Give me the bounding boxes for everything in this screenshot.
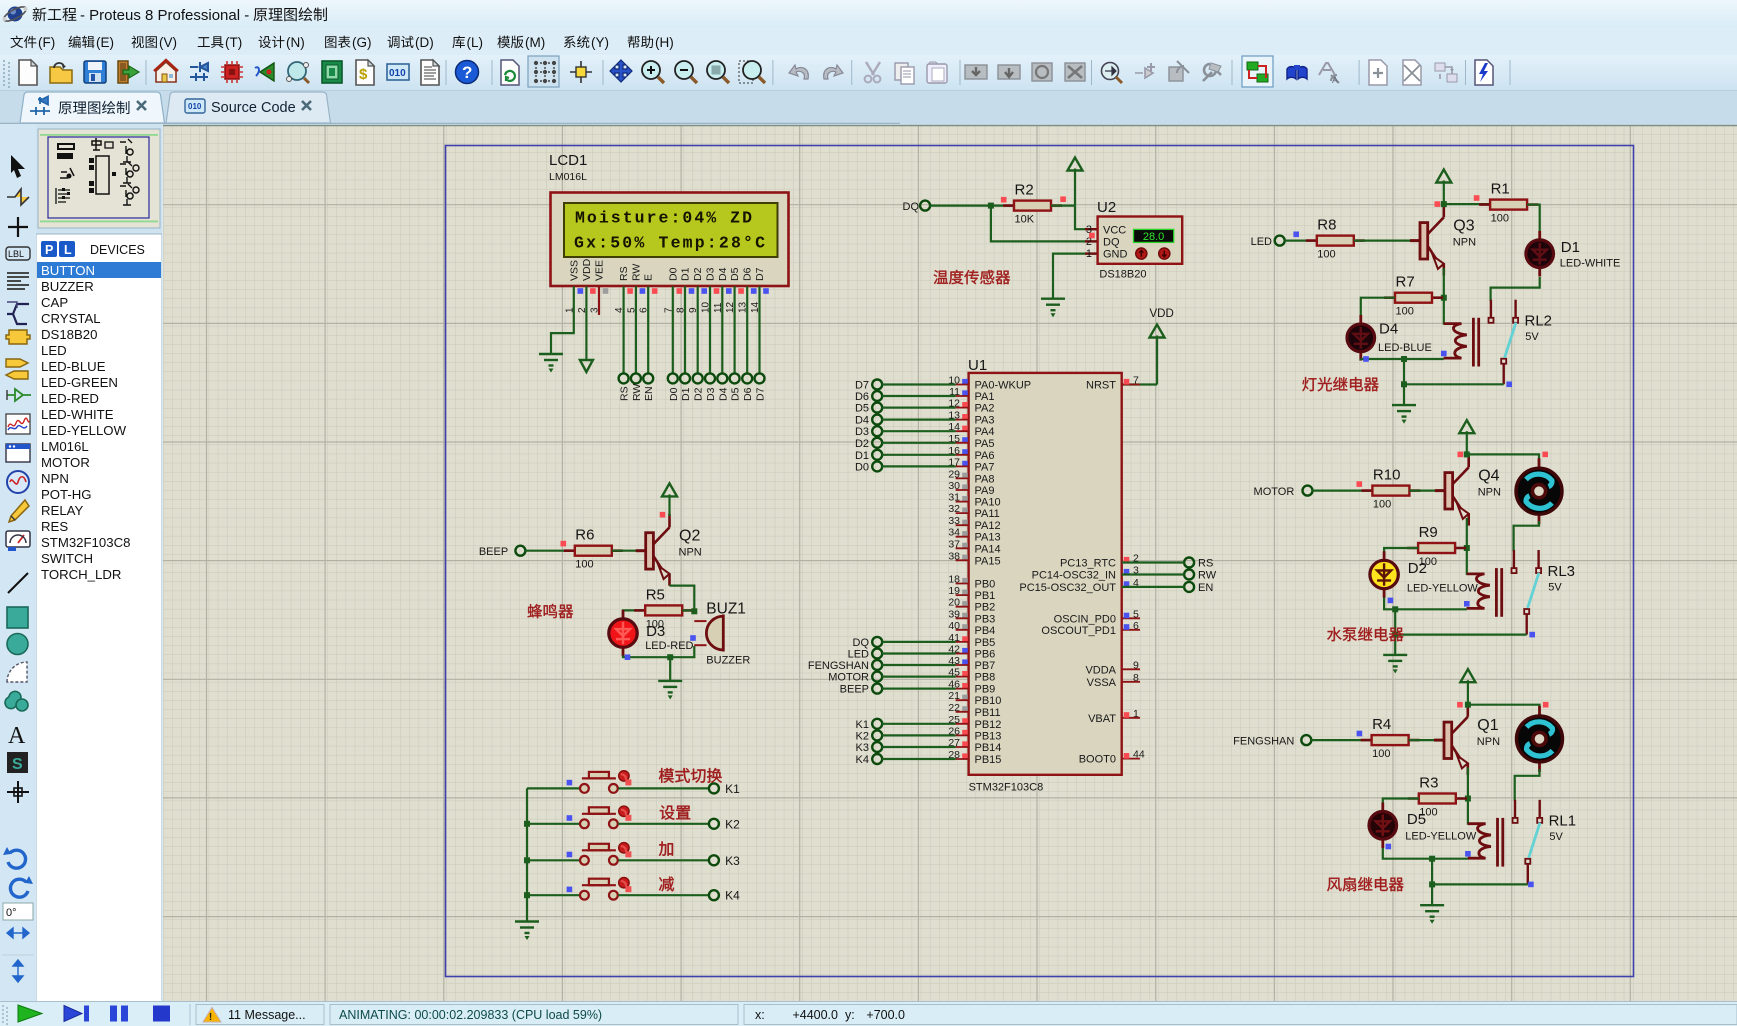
svg-text:PB0: PB0 xyxy=(975,579,996,591)
svg-text:GND: GND xyxy=(1103,249,1128,261)
wire LCD1 RS down to terminal xyxy=(622,286,624,373)
active tab 原理图绘制 xyxy=(20,92,165,123)
wire ground node down (RL1) xyxy=(1431,859,1433,905)
svg-text:PA1: PA1 xyxy=(975,391,995,403)
svg-text:PA9: PA9 xyxy=(975,485,995,497)
pin square motor top (pump) xyxy=(1542,452,1548,458)
pin square BUZ1 xyxy=(690,635,696,641)
wire button K2 to terminal xyxy=(618,823,709,825)
svg-text:PB2: PB2 xyxy=(975,602,996,614)
ground (U2 GND) xyxy=(1041,299,1065,311)
wire R1 to D1 xyxy=(1527,205,1540,241)
svg-text:?: ? xyxy=(462,63,472,82)
svg-text:NPN: NPN xyxy=(1477,736,1500,748)
label 温度传感器 (temperature sensor) xyxy=(934,270,948,284)
wire FENGSHAN terminal to R4 xyxy=(1311,739,1372,741)
svg-text:LED-YELLOW: LED-YELLOW xyxy=(1407,583,1479,595)
svg-text:VSS: VSS xyxy=(568,260,580,281)
terminal D5 (below LCD) xyxy=(730,373,740,383)
junction ground rail (RL2) xyxy=(1401,381,1407,387)
wire Q3 emitter to RL2 coil xyxy=(1443,268,1445,325)
svg-text:DQ: DQ xyxy=(903,201,920,213)
svg-text:(G): (G) xyxy=(352,35,372,50)
svg-text:!: ! xyxy=(209,1012,212,1023)
svg-text:(V): (V) xyxy=(159,35,177,50)
svg-text:PB15: PB15 xyxy=(975,754,1002,766)
terminal K4 (buttons) xyxy=(709,890,719,900)
svg-text:MOTOR: MOTOR xyxy=(1254,486,1295,498)
pin square R8 left xyxy=(1293,232,1299,238)
svg-text:Q3: Q3 xyxy=(1453,218,1474,235)
svg-text:(N): (N) xyxy=(286,35,305,50)
svg-text:10K: 10K xyxy=(1015,214,1035,226)
svg-text:PB5: PB5 xyxy=(975,637,996,649)
wire LCD1 D2 down to terminal xyxy=(697,286,699,373)
wire LCD1 D3 down to terminal xyxy=(709,286,711,373)
svg-text:K2: K2 xyxy=(725,817,740,831)
terminal K3 (U1 side) xyxy=(872,742,882,752)
window title text xyxy=(33,7,47,21)
pin square RL1 pole xyxy=(1528,882,1534,888)
svg-text:POT-HG: POT-HG xyxy=(41,487,92,502)
terminal D1 (U1 side) xyxy=(872,450,882,460)
svg-text:LED: LED xyxy=(41,343,67,358)
wire RL2 pole to ground rail xyxy=(1404,383,1504,385)
terminal K1 (U1 side) xyxy=(872,719,882,729)
svg-text:100: 100 xyxy=(1317,249,1335,261)
svg-text:K4: K4 xyxy=(856,754,869,766)
pin square left of junction (Q3) xyxy=(1435,201,1441,207)
wire terminal D4 to U1 xyxy=(882,419,956,421)
svg-text:D3: D3 xyxy=(855,426,869,438)
svg-text:STM32F103C8: STM32F103C8 xyxy=(41,535,130,550)
pin square R4 left xyxy=(1357,731,1363,737)
power terminal (Q4 collector rail) xyxy=(1466,431,1468,454)
svg-text:x:: x: xyxy=(755,1008,765,1022)
pin square button K1 xyxy=(567,780,573,786)
svg-text:LED-BLUE: LED-BLUE xyxy=(1378,342,1432,354)
svg-text:D2: D2 xyxy=(1408,560,1427,577)
wire D4 bottom to RL2 coil bottom xyxy=(1361,357,1444,360)
svg-text:(H): (H) xyxy=(655,35,674,50)
svg-text:D5: D5 xyxy=(1407,811,1426,828)
svg-text:D6: D6 xyxy=(742,387,754,401)
wire terminal LED to U1 xyxy=(882,652,956,654)
U1 left pin names PA0-PA15, PB0-PB15 xyxy=(975,380,1032,767)
svg-text:+700.0: +700.0 xyxy=(866,1008,905,1022)
svg-text:LM016L: LM016L xyxy=(549,171,587,183)
terminal K2 (U1 side) xyxy=(872,730,882,740)
ground (pump relay) xyxy=(1383,655,1407,667)
svg-text:D0: D0 xyxy=(855,461,869,473)
svg-text:VDD: VDD xyxy=(1150,308,1174,320)
pin square RL1 coil xyxy=(1465,851,1471,857)
svg-text:RL2: RL2 xyxy=(1525,313,1553,330)
wire terminal MOTOR to U1 xyxy=(882,675,956,677)
wire BEEP to R6 xyxy=(525,550,575,552)
toolbar grip dots xyxy=(3,60,10,88)
svg-text:VBAT: VBAT xyxy=(1088,713,1116,725)
wire LCD1 D5 down to terminal xyxy=(733,286,735,373)
Proteus logo xyxy=(2,4,28,24)
svg-text:PA6: PA6 xyxy=(975,450,995,462)
svg-text:NPN: NPN xyxy=(1453,237,1476,249)
U1 left pin numbers and squares xyxy=(948,375,960,762)
svg-text:STM32F103C8: STM32F103C8 xyxy=(969,782,1044,794)
LCD display LCD1 LM016L xyxy=(549,152,789,286)
wire LCD1 D6 down to terminal xyxy=(746,286,748,373)
push button K1 xyxy=(580,772,618,793)
power terminal (Q1 collector rail) xyxy=(1467,680,1469,705)
svg-text:100: 100 xyxy=(1491,213,1509,225)
wire VCC rail to U2 pin3 xyxy=(1075,206,1098,230)
svg-text:RW: RW xyxy=(630,264,642,281)
terminal D6 (U1 side) xyxy=(872,391,882,401)
step button xyxy=(64,1006,82,1022)
pin square left of junction (Q4) xyxy=(1458,452,1464,458)
svg-text:TORCH_LDR: TORCH_LDR xyxy=(41,567,121,582)
wire U2 pin1 GND to ground xyxy=(1053,254,1098,299)
wire terminal D0 to U1 xyxy=(882,465,956,467)
svg-text:(E): (E) xyxy=(96,35,114,50)
svg-text:D1: D1 xyxy=(680,387,692,401)
terminal D6 (below LCD) xyxy=(742,373,752,383)
svg-text:R3: R3 xyxy=(1419,775,1438,792)
wire terminal K2 to U1 xyxy=(882,734,956,736)
terminal K4 (U1 side) xyxy=(872,754,882,764)
U1 left pin stubs xyxy=(956,385,969,760)
label 模式切换 (mode switch) xyxy=(659,768,674,783)
svg-text:BOOT0: BOOT0 xyxy=(1079,754,1116,766)
LCD1 pin numbers 1-14 (rotated) xyxy=(564,301,761,313)
svg-text:DS18B20: DS18B20 xyxy=(41,327,97,342)
wire terminal D1 to U1 xyxy=(882,454,956,456)
svg-text:R5: R5 xyxy=(646,586,665,603)
wire LED terminal to R8 xyxy=(1284,240,1317,242)
svg-text:(F): (F) xyxy=(38,35,55,50)
svg-text:VEE: VEE xyxy=(594,260,606,281)
terminal EN (below LCD) xyxy=(643,373,653,383)
svg-text:R1: R1 xyxy=(1491,181,1510,198)
svg-text:BUZZER: BUZZER xyxy=(41,279,94,294)
svg-text:D4: D4 xyxy=(1379,321,1398,338)
LED D5 LED-YELLOW (off) xyxy=(1369,803,1397,849)
junction bus row K2 xyxy=(524,821,530,827)
toolbar separators xyxy=(145,60,147,85)
wire terminal D2 to U1 xyxy=(882,442,956,444)
terminal RS (U1 right) xyxy=(1184,558,1194,568)
terminal FENGSHAN (U1 side) xyxy=(872,660,882,670)
svg-text:D5: D5 xyxy=(730,387,742,401)
pin square R2 left xyxy=(1001,197,1007,203)
svg-text:R7: R7 xyxy=(1396,274,1415,291)
svg-text:010: 010 xyxy=(188,102,202,111)
svg-text:DQ: DQ xyxy=(1103,237,1120,249)
LCD1 pin indicator squares xyxy=(578,288,584,294)
wire MOTOR terminal to R10 xyxy=(1312,490,1372,492)
svg-text:RELAY: RELAY xyxy=(41,503,83,518)
terminal LED (U1 side) xyxy=(872,649,882,659)
wire DQ terminal to R2 xyxy=(930,205,1014,207)
svg-text:PC15-OSC32_OUT: PC15-OSC32_OUT xyxy=(1019,582,1116,594)
wire terminal K3 to U1 xyxy=(882,746,956,748)
svg-text:FENGSHAN: FENGSHAN xyxy=(808,660,869,672)
svg-text:EN: EN xyxy=(1198,582,1213,594)
junction D5/coil ground node xyxy=(1429,856,1435,862)
junction ground rail (RL3) xyxy=(1392,632,1398,638)
terminal RS (below LCD) xyxy=(619,373,629,383)
label 灯光继电器 (light relay) xyxy=(1302,377,1316,391)
pin square R10 left xyxy=(1357,481,1363,487)
svg-text:PA12: PA12 xyxy=(975,520,1001,532)
pin square button K2 xyxy=(567,815,573,821)
svg-text:Q2: Q2 xyxy=(679,528,700,545)
wire R6 to Q2 base xyxy=(612,550,646,552)
svg-text:D7: D7 xyxy=(755,387,767,401)
wire U1 to terminal EN xyxy=(1122,586,1185,588)
svg-text:PA8: PA8 xyxy=(975,473,995,485)
wire to ground (buzzer) xyxy=(669,657,671,680)
wire R3 to emitter junction xyxy=(1456,797,1468,799)
ground (light relay) xyxy=(1392,405,1416,417)
wire DQ node to U2 pin2 DQ xyxy=(991,206,1098,242)
wire R3 to D5 top xyxy=(1383,799,1419,812)
svg-text:NPN: NPN xyxy=(41,471,69,486)
terminal D3 (below LCD) xyxy=(705,373,715,383)
svg-text:RW: RW xyxy=(631,384,643,401)
svg-text:VDD: VDD xyxy=(581,258,593,281)
wire D3 top to R5 xyxy=(623,610,645,618)
ground (buttons) xyxy=(515,922,539,934)
svg-text:R10: R10 xyxy=(1373,467,1401,484)
wire button K4 to terminal xyxy=(618,894,709,896)
terminal BEEP (buzzer drive) xyxy=(515,546,525,556)
toolbar icons row xyxy=(19,60,37,85)
svg-text:LBL: LBL xyxy=(8,249,24,259)
svg-text:D0: D0 xyxy=(667,267,679,281)
svg-text:R4: R4 xyxy=(1372,716,1391,733)
svg-text:100: 100 xyxy=(1396,306,1414,318)
svg-text:D3: D3 xyxy=(705,387,717,401)
svg-text:LED: LED xyxy=(848,649,869,661)
left mode icons column xyxy=(11,155,25,178)
junction R5 right / BUZ1 top xyxy=(691,608,697,614)
wire terminal K4 to U1 xyxy=(882,758,956,760)
terminal K2 (buttons) xyxy=(709,819,719,829)
transistor Q1 xyxy=(1434,703,1468,775)
terminal EN (U1 right) xyxy=(1184,582,1194,592)
temperature sensor U2 DS18B20 xyxy=(1085,199,1182,281)
svg-text:PA0-WKUP: PA0-WKUP xyxy=(975,380,1032,392)
label 蜂鸣器 (buzzer) xyxy=(528,604,543,618)
svg-text:FENGSHAN: FENGSHAN xyxy=(1233,736,1294,748)
pin square left of junction (Q1) xyxy=(1457,702,1463,708)
wire LCD1 D7 down to terminal xyxy=(758,286,760,373)
svg-text:PB6: PB6 xyxy=(975,649,996,661)
terminal D5 (U1 side) xyxy=(872,403,882,413)
svg-text:$: $ xyxy=(359,66,368,83)
svg-text:VCC: VCC xyxy=(1103,225,1126,237)
svg-text:EN: EN xyxy=(643,386,655,401)
svg-text:BUTTON: BUTTON xyxy=(41,263,95,278)
svg-text:BUZ1: BUZ1 xyxy=(706,601,746,618)
wire LCD1 D0 down to terminal xyxy=(672,286,674,373)
svg-text:1: 1 xyxy=(1086,248,1092,260)
svg-text:PB14: PB14 xyxy=(975,742,1002,754)
svg-text:(D): (D) xyxy=(415,35,434,50)
wire button K3 to terminal xyxy=(618,859,709,861)
svg-text:LED-RED: LED-RED xyxy=(41,391,99,406)
pin square motor top (fan) xyxy=(1543,702,1549,708)
svg-text:100: 100 xyxy=(1372,748,1390,760)
wire motor to RL3 NO contact xyxy=(1514,521,1539,551)
motor (fan) xyxy=(1517,706,1563,772)
svg-text:RS: RS xyxy=(619,386,631,401)
svg-text:BEEP: BEEP xyxy=(840,684,869,696)
junction ground node (buzzer) xyxy=(667,654,673,660)
junction Q4 collector rail xyxy=(1464,451,1470,457)
svg-text:(Y): (Y) xyxy=(591,35,609,50)
junction R3 / emitter xyxy=(1465,796,1471,802)
svg-text:K3: K3 xyxy=(725,854,740,868)
label 加 (increase) xyxy=(659,841,673,856)
play button xyxy=(18,1005,42,1022)
svg-text:Moisture:04% ZD: Moisture:04% ZD xyxy=(575,209,752,228)
terminal LED (light drive) xyxy=(1275,236,1285,246)
wire button common bus xyxy=(526,788,528,921)
svg-text:D1: D1 xyxy=(680,267,692,281)
terminal DQ (top, to sensor) xyxy=(920,201,930,211)
svg-text:MOTOR: MOTOR xyxy=(828,672,869,684)
motor (water pump) xyxy=(1516,458,1562,524)
wire U1 to terminal RS xyxy=(1122,561,1185,563)
svg-text:R2: R2 xyxy=(1015,182,1034,199)
resistor R1 xyxy=(1479,181,1538,225)
svg-text:D3: D3 xyxy=(646,623,665,640)
wire terminal D7 to U1 xyxy=(882,383,956,385)
svg-text:PA2: PA2 xyxy=(975,403,995,415)
ground (LCD1 VSS) xyxy=(539,354,563,366)
svg-text:R9: R9 xyxy=(1419,524,1438,541)
svg-text:K1: K1 xyxy=(725,782,740,796)
svg-text:+4400.0: +4400.0 xyxy=(792,1008,838,1022)
svg-text:LED-RED: LED-RED xyxy=(645,640,693,652)
svg-text:OSCOUT_PD1: OSCOUT_PD1 xyxy=(1041,625,1116,637)
svg-text:PA10: PA10 xyxy=(975,497,1001,509)
label 设置 (set) xyxy=(660,805,675,819)
svg-text:D2: D2 xyxy=(693,387,705,401)
svg-text:LED-YELLOW: LED-YELLOW xyxy=(41,423,127,438)
svg-text:D4: D4 xyxy=(717,387,729,401)
svg-text:ANIMATING: 00:00:02.209833 (CP: ANIMATING: 00:00:02.209833 (CPU load 59%… xyxy=(339,1008,602,1022)
svg-text:DQ: DQ xyxy=(853,637,870,649)
pin square D3 bottom xyxy=(625,654,631,660)
wire terminal BEEP to U1 xyxy=(882,687,956,689)
svg-text:MOTOR: MOTOR xyxy=(41,455,90,470)
svg-text:D7: D7 xyxy=(855,380,869,392)
svg-text:PB1: PB1 xyxy=(975,590,996,602)
pin square U2 pin2 xyxy=(1089,233,1095,239)
svg-text:(L): (L) xyxy=(467,35,484,50)
svg-text:LED: LED xyxy=(1251,236,1272,248)
LED D3 LED-RED xyxy=(609,610,637,656)
wire terminal K1 to U1 xyxy=(882,723,956,725)
wire rail to pump motor xyxy=(1467,454,1539,468)
svg-text:LED-YELLOW: LED-YELLOW xyxy=(1405,831,1477,843)
svg-text:D2: D2 xyxy=(692,267,704,281)
svg-text:Q4: Q4 xyxy=(1478,468,1499,485)
svg-text:- Proteus 8 Professional -: - Proteus 8 Professional - xyxy=(80,7,249,24)
push button K4 xyxy=(580,879,618,900)
svg-text:R6: R6 xyxy=(575,527,594,544)
svg-text:D6: D6 xyxy=(855,391,869,403)
wire LCD1 pin2 VDD stub xyxy=(585,286,587,347)
svg-text:PA11: PA11 xyxy=(975,508,1000,520)
junction bus row K3 xyxy=(524,857,530,863)
svg-text:A: A xyxy=(1332,75,1338,85)
svg-text:RES: RES xyxy=(41,519,68,534)
svg-text:PC14-OSC32_IN: PC14-OSC32_IN xyxy=(1032,570,1116,582)
relay RL1 5V xyxy=(1468,800,1543,885)
terminal RW (U1 right) xyxy=(1184,570,1194,580)
svg-text:NPN: NPN xyxy=(1478,487,1501,499)
svg-text:5V: 5V xyxy=(1525,331,1539,343)
wire bus to button K3 xyxy=(527,859,579,861)
svg-text:PA7: PA7 xyxy=(975,461,995,473)
svg-text:K3: K3 xyxy=(856,742,869,754)
ground (buzzer block) xyxy=(658,681,682,693)
wire R9 to emitter junction xyxy=(1455,547,1467,549)
svg-text:Source Code: Source Code xyxy=(211,100,296,116)
wire rail to fan motor xyxy=(1468,705,1540,716)
wire LCD1 pin1 VSS to ground xyxy=(551,286,574,353)
svg-text:0°: 0° xyxy=(6,907,17,919)
svg-text:DEVICES: DEVICES xyxy=(90,243,145,257)
terminal MOTOR (U1 side) xyxy=(872,672,882,682)
wire LCD1 RW down to terminal xyxy=(635,286,637,373)
wire ground node down (RL3) xyxy=(1394,609,1396,654)
pin square RL3 coil xyxy=(1464,601,1470,607)
svg-text:D7: D7 xyxy=(754,267,766,281)
wire bus to button K2 xyxy=(527,823,579,825)
svg-text:PB4: PB4 xyxy=(975,625,996,637)
wire U1 to terminal RW xyxy=(1122,573,1185,575)
LCD1 pin names (rotated, inside body) xyxy=(568,258,766,281)
svg-text:PA13: PA13 xyxy=(975,532,1001,544)
terminal D7 (below LCD) xyxy=(755,373,765,383)
LED D2 LED-YELLOW (lit) xyxy=(1370,551,1398,597)
junction Q3 collector rail xyxy=(1441,201,1447,207)
svg-text:D1: D1 xyxy=(1561,239,1580,256)
svg-text:100: 100 xyxy=(1373,499,1391,511)
svg-text:PA4: PA4 xyxy=(975,426,995,438)
wire RL3 pole to ground rail xyxy=(1395,633,1527,635)
svg-text:NRST: NRST xyxy=(1086,380,1116,392)
pin square RL3 pole xyxy=(1529,632,1535,638)
svg-text:PA15: PA15 xyxy=(975,555,1001,567)
wire R9 to D2 top xyxy=(1384,548,1418,560)
svg-text:D5: D5 xyxy=(729,267,741,281)
junction ground rail (RL1) xyxy=(1429,881,1435,887)
terminal D0 (below LCD) xyxy=(668,373,678,383)
svg-text:PB9: PB9 xyxy=(975,684,996,696)
svg-text:Q1: Q1 xyxy=(1477,717,1498,734)
svg-text:(M): (M) xyxy=(525,35,545,50)
junction R7 / emitter xyxy=(1441,295,1447,301)
power terminal VCC (above U2) xyxy=(1074,169,1076,206)
terminal FENGSHAN (fan drive) xyxy=(1301,735,1311,745)
terminal D3 (U1 side) xyxy=(872,426,882,436)
